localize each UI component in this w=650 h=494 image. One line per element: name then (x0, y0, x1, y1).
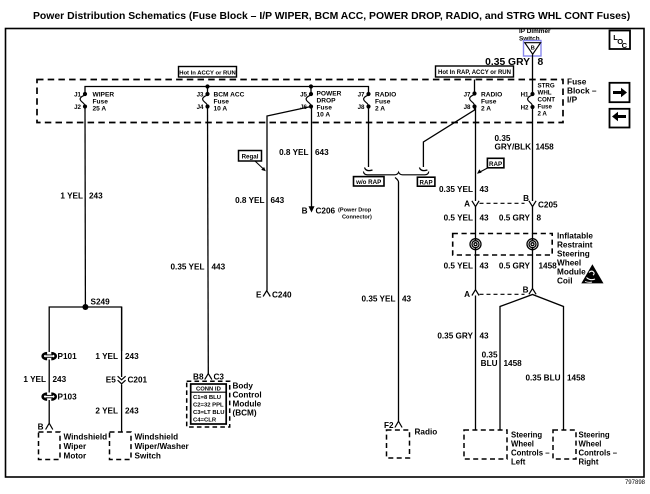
svg-text:C3=LT BLU: C3=LT BLU (193, 410, 224, 416)
wire 0.35 YEL 43 from RADIO fuse 2 down to C205 pin A (475, 107, 477, 201)
svg-text:1458: 1458 (539, 262, 558, 271)
svg-text:Switch: Switch (519, 36, 540, 43)
feed label Hot In RAP, ACCY or RUN (436, 66, 514, 77)
svg-text:Module: Module (557, 268, 586, 277)
svg-text:Left: Left (511, 458, 526, 467)
svg-text:Power Distribution Schematics: Power Distribution Schematics (Fuse Bloc… (33, 11, 630, 22)
svg-text:E5: E5 (106, 376, 116, 385)
svg-text:Fuse: Fuse (375, 99, 391, 106)
wire 0.5 YEL 43 from coil to lower connector A (475, 248, 477, 290)
svg-text:H2: H2 (521, 105, 529, 112)
svg-text:1458: 1458 (504, 359, 523, 368)
terminal B into wiper motor (38, 423, 53, 432)
svg-text:643: 643 (315, 148, 329, 157)
wire 0.35 GRY 43 from connector A to steering wheel controls left (475, 296, 477, 431)
svg-text:25 A: 25 A (93, 106, 107, 113)
svg-text:Control: Control (233, 391, 262, 400)
svg-text:0.5 YEL: 0.5 YEL (444, 214, 473, 223)
svg-text:43: 43 (402, 295, 412, 304)
wire 0.5 GRY 8 from C205-B to coil (532, 207, 534, 240)
svg-text:BLU: BLU (481, 359, 498, 368)
svg-text:Switch: Switch (135, 452, 161, 461)
connector E5 C201 (double chevron) (106, 376, 148, 385)
svg-text:Fuse: Fuse (538, 104, 553, 111)
wire 0.8 YEL 643 left fork from J6 to C240 (267, 107, 311, 291)
svg-text:w/o RAP: w/o RAP (355, 179, 381, 186)
svg-text:0.5 GRY: 0.5 GRY (499, 262, 531, 271)
stub from RAP bus to RADIO fuse 2 (474, 80, 476, 94)
svg-text:POWER: POWER (317, 91, 342, 98)
svg-text:0.35 YEL: 0.35 YEL (439, 185, 473, 194)
brace merge of radio feed wires (363, 172, 428, 183)
svg-text:C206: C206 (316, 207, 336, 216)
svg-text:2 A: 2 A (375, 106, 385, 113)
svg-text:443: 443 (212, 263, 226, 272)
svg-text:WIPER: WIPER (93, 92, 115, 99)
svg-text:Hot In RAP, ACCY or RUN: Hot In RAP, ACCY or RUN (438, 70, 511, 76)
wire 0.35 GRY 8 from dimmer switch to fuse H1 (532, 55, 534, 95)
svg-text:1 YEL: 1 YEL (60, 192, 83, 201)
component Windshield Wiper/Washer Switch (110, 432, 190, 461)
svg-text:0.35 GRY: 0.35 GRY (437, 332, 473, 341)
svg-text:C201: C201 (128, 376, 148, 385)
svg-text:J8: J8 (464, 104, 471, 111)
svg-text:C1=8 BLU: C1=8 BLU (193, 395, 221, 401)
svg-text:Wiper: Wiper (64, 442, 87, 451)
svg-text:Controls –: Controls – (579, 449, 618, 458)
wire fork from connector B to both steering wheel controls (500, 295, 564, 431)
svg-text:Wheel: Wheel (579, 440, 602, 449)
svg-text:C3: C3 (214, 373, 225, 382)
svg-text:C240: C240 (272, 291, 292, 300)
wire 0.35 YEL 43 merged radio feed down to radio F2 (398, 182, 400, 421)
svg-text:2 YEL: 2 YEL (95, 407, 118, 416)
wire 1 YEL 243 between P101 and P103 (48, 360, 50, 393)
svg-text:B8: B8 (193, 373, 204, 382)
svg-text:(Power Drop: (Power Drop (338, 208, 372, 214)
svg-text:Fuse: Fuse (317, 105, 333, 112)
svg-text:Fuse: Fuse (214, 99, 230, 106)
junction on bus at POWER DROP fuse (309, 84, 313, 88)
svg-text:C205: C205 (538, 201, 558, 210)
svg-text:RAP: RAP (420, 179, 433, 186)
svg-text:243: 243 (89, 192, 103, 201)
svg-text:GRY/BLK: GRY/BLK (495, 143, 532, 152)
svg-text:0.8 YEL: 0.8 YEL (279, 148, 308, 157)
component Steering Wheel Controls - Left (464, 430, 550, 467)
connector B C206 (Power Drop Connector) arrow end (302, 206, 372, 220)
connector C205 pins A and B (464, 194, 558, 210)
fuse POWER DROP 10A (J5/J6) (300, 91, 342, 119)
svg-text:J7: J7 (358, 92, 365, 99)
svg-text:IP Dimmer: IP Dimmer (519, 28, 551, 35)
svg-text:643: 643 (271, 196, 285, 205)
svg-text:243: 243 (125, 407, 139, 416)
svg-text:J3: J3 (197, 92, 204, 99)
svg-text:0.5 YEL: 0.5 YEL (444, 262, 473, 271)
svg-text:WHL: WHL (538, 90, 552, 97)
svg-text:B: B (302, 207, 308, 216)
component Inflatable Restraint Steering Wheel Module Coil (453, 232, 594, 286)
svg-text:43: 43 (480, 332, 490, 341)
svg-text:J8: J8 (358, 104, 365, 111)
component Steering Wheel Controls - Right (553, 430, 618, 467)
svg-text:797898: 797898 (625, 480, 646, 486)
component Windshield Wiper Motor (39, 432, 108, 461)
fuse RADIO 2A no.2 (J7/J8) (464, 91, 503, 112)
junction on bus at BCM ACC fuse (205, 84, 209, 88)
svg-text:Coil: Coil (557, 277, 572, 286)
svg-text:BCM ACC: BCM ACC (214, 92, 245, 99)
svg-text:DROP: DROP (317, 98, 337, 105)
svg-text:Restraint: Restraint (557, 241, 593, 250)
svg-text:1 YEL: 1 YEL (23, 375, 46, 384)
lower coil connector pins A and B (464, 285, 536, 299)
terminal B8 connector C3 into BCM (193, 373, 224, 382)
svg-text:8: 8 (538, 57, 544, 68)
component IP Dimmer Switch (triangle terminal B) (519, 28, 551, 56)
component Radio (387, 428, 438, 459)
svg-text:B: B (523, 285, 529, 294)
svg-text:B: B (531, 45, 535, 51)
svg-text:Connector): Connector) (342, 215, 372, 221)
svg-text:F2: F2 (384, 421, 394, 430)
svg-text:0.35 YEL: 0.35 YEL (362, 295, 396, 304)
svg-text:Steering: Steering (557, 250, 590, 259)
connector arc under radio wire 2 (419, 168, 427, 171)
svg-text:Fuse: Fuse (93, 99, 109, 106)
wire 0.35 GRY/BLK 1458 from H2 to C205 pin B (532, 107, 534, 201)
svg-text:P103: P103 (58, 393, 78, 402)
svg-text:Body: Body (233, 382, 254, 391)
svg-text:0.8 YEL: 0.8 YEL (235, 196, 264, 205)
svg-text:0.5 GRY: 0.5 GRY (499, 214, 531, 223)
svg-text:Steering: Steering (579, 431, 610, 440)
svg-text:1458: 1458 (536, 143, 555, 152)
svg-text:B: B (38, 423, 44, 432)
svg-text:Regal: Regal (242, 154, 259, 161)
forward arrow nav box (610, 83, 630, 102)
LOC navigation box (610, 31, 631, 50)
svg-text:RADIO: RADIO (375, 92, 396, 99)
svg-text:RAP: RAP (489, 161, 502, 168)
svg-text:2 A: 2 A (481, 106, 491, 113)
svg-text:Steering: Steering (511, 431, 542, 440)
svg-text:Wiper/Washer: Wiper/Washer (135, 442, 190, 451)
svg-text:10 A: 10 A (317, 112, 331, 119)
SIR warning triangle (581, 264, 603, 283)
fuse BCM ACC 10A (J3/J4) (197, 92, 245, 113)
bus bar Hot In ACCY or RUN (85, 87, 369, 94)
svg-text:Wheel: Wheel (557, 259, 581, 268)
svg-text:8: 8 (537, 214, 542, 223)
grommet P101 (43, 352, 77, 361)
tag w/o RAP (354, 177, 385, 186)
svg-text:243: 243 (125, 352, 139, 361)
svg-text:43: 43 (480, 262, 490, 271)
svg-text:B: B (523, 194, 529, 203)
feed label Hot In ACCY or RUN (179, 67, 237, 78)
svg-text:43: 43 (480, 185, 490, 194)
svg-text:10 A: 10 A (214, 106, 228, 113)
svg-text:J5: J5 (300, 92, 307, 99)
svg-text:RADIO: RADIO (481, 92, 502, 99)
coil symbol right (527, 239, 538, 250)
connector E C240 (256, 291, 292, 300)
svg-text:Wheel: Wheel (511, 440, 534, 449)
svg-text:243: 243 (53, 375, 67, 384)
svg-text:43: 43 (480, 214, 490, 223)
svg-text:Right: Right (579, 458, 599, 467)
svg-text:STRG: STRG (538, 83, 555, 90)
svg-text:1 YEL: 1 YEL (95, 352, 118, 361)
wire P103 to wiper motor terminal B (48, 400, 50, 423)
svg-text:1458: 1458 (567, 374, 586, 383)
coil symbol left (470, 239, 481, 250)
grommet P103 (43, 393, 77, 402)
svg-text:Hot In ACCY or RUN: Hot In ACCY or RUN (179, 70, 236, 76)
svg-text:A: A (464, 200, 470, 209)
svg-text:(BCM): (BCM) (233, 409, 257, 418)
svg-text:Windshield: Windshield (135, 433, 179, 442)
svg-text:Inflatable: Inflatable (557, 232, 593, 241)
wire 0.5 YEL 43 from C205-A to coil (475, 207, 477, 240)
wire 0.35 YEL 443 from J4 to BCM (207, 107, 210, 374)
svg-text:0.35 BLU: 0.35 BLU (525, 374, 560, 383)
svg-text:0.35 YEL: 0.35 YEL (171, 263, 205, 272)
splice S249 (49, 298, 121, 353)
svg-text:I/P: I/P (567, 95, 578, 105)
wire 2 YEL 243 from C201 to wiper/washer switch (121, 385, 123, 433)
wire 0.5 GRY 1458 from coil to lower connector B (532, 248, 534, 289)
svg-text:E: E (256, 291, 262, 300)
wire S249 right branch 1 YEL 243 to C201 (121, 307, 123, 377)
fuse RADIO 2A no.1 (J7/J8) (358, 92, 397, 113)
svg-text:2 A: 2 A (538, 111, 548, 118)
svg-text:C: C (622, 41, 628, 50)
tag RAP with arrow (477, 158, 504, 174)
svg-text:Motor: Motor (64, 452, 88, 461)
svg-text:C2=32 PPL: C2=32 PPL (193, 402, 224, 408)
svg-text:A: A (464, 290, 470, 299)
svg-text:H1: H1 (521, 92, 529, 99)
terminal F2 into radio (384, 421, 402, 430)
svg-text:J7: J7 (464, 92, 471, 99)
fuse STRG WHL CONT 2A (H1/H2) (521, 83, 556, 118)
svg-text:J1: J1 (74, 92, 81, 99)
tag RAP (on brace) (417, 177, 435, 186)
svg-text:Radio: Radio (415, 428, 438, 437)
wire 0.8 YEL 643 right fork from J6 to C206 (311, 107, 313, 212)
fuse block I/P dashed box (37, 80, 563, 123)
wire 1 YEL 243 from J2 to splice S249 (84, 107, 86, 308)
svg-text:S249: S249 (91, 298, 111, 307)
svg-text:Module: Module (233, 400, 262, 409)
svg-text:J2: J2 (74, 104, 81, 111)
svg-text:C4=CLR: C4=CLR (193, 418, 217, 424)
component Body Control Module (BCM) with CONN ID table (187, 381, 262, 427)
svg-text:CONT: CONT (538, 97, 556, 104)
svg-text:Windshield: Windshield (64, 433, 108, 442)
back arrow nav box (610, 109, 630, 128)
svg-text:Controls –: Controls – (511, 449, 550, 458)
connector arc under radio wire 1 (365, 168, 373, 171)
svg-text:J4: J4 (197, 104, 204, 111)
wire RADIO fuse 2 J8 diagonal down to RAP arc (423, 107, 474, 168)
wire RADIO fuse 1 J8 down to w/o RAP arc (368, 107, 370, 168)
tag Regal with arrow (239, 151, 266, 172)
svg-text:P101: P101 (58, 352, 78, 361)
fuse WIPER 25A (J1/J2) (74, 92, 114, 113)
svg-text:Fuse: Fuse (481, 99, 497, 106)
